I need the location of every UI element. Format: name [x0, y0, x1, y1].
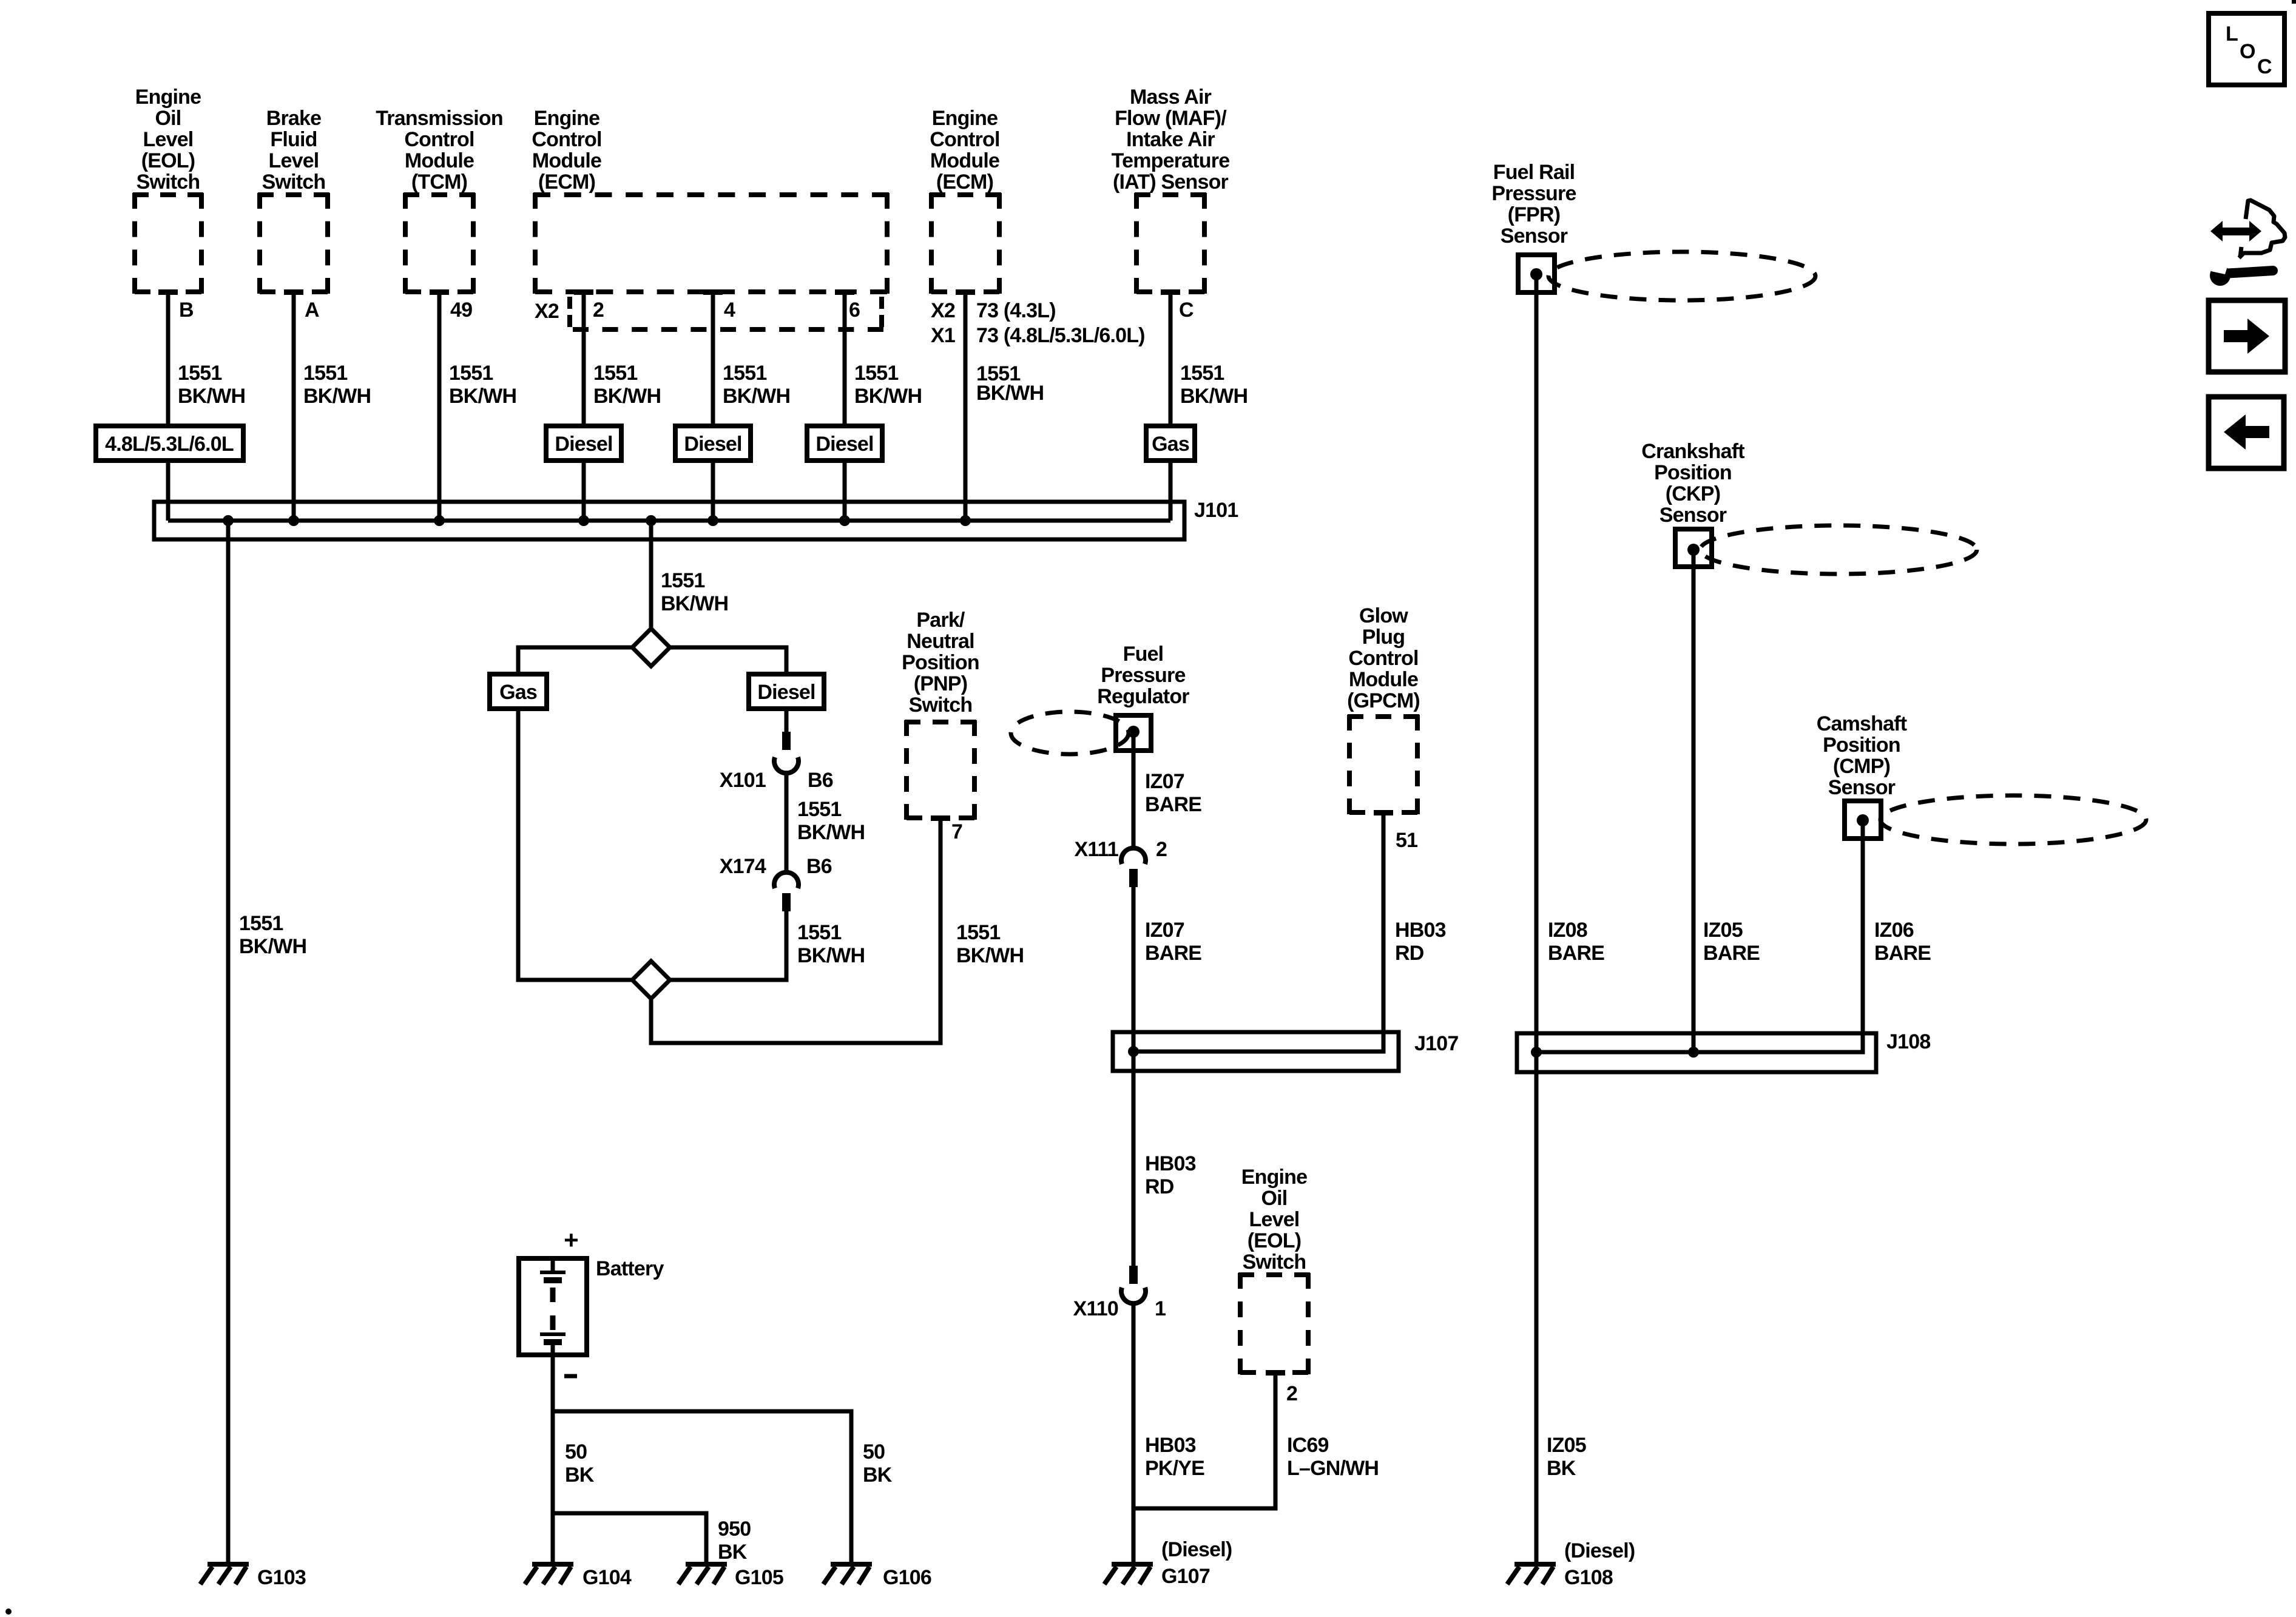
svg-text:1: 1: [1155, 1297, 1166, 1320]
svg-text:BARE: BARE: [1145, 793, 1201, 816]
svg-text:G107: G107: [1161, 1565, 1210, 1588]
svg-text:BK: BK: [1547, 1457, 1576, 1480]
Brake fluid level switch dashed box S2: [258, 193, 329, 294]
pin tab 6 of U1: [835, 289, 854, 295]
svg-text:(PNP): (PNP): [914, 672, 968, 695]
svg-text:BK: BK: [863, 1463, 893, 1487]
svg-text:IC69: IC69: [1287, 1434, 1329, 1457]
svg-text:BARE: BARE: [1703, 942, 1760, 965]
wire label 1551 BK/WH (pin 4): [723, 362, 790, 408]
wire IC69 L-GN/WH from S3 to G107 wire: [1133, 1372, 1275, 1508]
svg-text:Level: Level: [1249, 1208, 1300, 1231]
TCM dashed box: [403, 193, 475, 294]
SECTION: top row component labels: [135, 86, 1230, 194]
wire from bottom diamond to PNP switch pin 7: [651, 818, 940, 1043]
wire label 1551 BK/WH (G103 run): [239, 912, 306, 958]
service icon: stub: [2240, 247, 2241, 257]
wire 1551 BK/WH from MAF pin C to J101: [1169, 292, 1173, 521]
svg-text:Control: Control: [1348, 647, 1418, 670]
svg-text:Module: Module: [930, 149, 999, 172]
svg-text:Fuel Rail: Fuel Rail: [1493, 161, 1575, 184]
FPR sensor harness ellipse: [1548, 252, 1815, 300]
ground G108: [1507, 1564, 1556, 1584]
wire label IC69 L-GN/WH: [1287, 1434, 1379, 1480]
ECM wide dashed box U1: [533, 193, 889, 294]
junction dot G103 drop: [223, 515, 234, 526]
wire IZ06 BARE from CMP sensor to J108: [1536, 820, 1863, 1052]
connector X111 pin (male): [1129, 869, 1138, 887]
page corner mark: [2292, 0, 2296, 4]
wire label 50 BK (G106): [863, 1440, 893, 1487]
wire label 50 BK (G104): [565, 1440, 595, 1487]
svg-text:73 (4.8L/5.3L/6.0L): 73 (4.8L/5.3L/6.0L): [976, 324, 1145, 347]
svg-text:Control: Control: [930, 128, 999, 151]
wire label IZ05 BK (G108 run): [1547, 1434, 1586, 1480]
CKP sensor harness ellipse: [1700, 525, 1977, 574]
ECM connector X2 strip: left dashed tick: [567, 297, 572, 327]
svg-text:1551: 1551: [797, 798, 841, 821]
svg-text:1551: 1551: [593, 362, 637, 385]
pin tab 73 of U2: [956, 289, 975, 295]
fuel pressure regulator harness ellipse: [1011, 712, 1129, 754]
svg-text:HB03: HB03: [1145, 1152, 1196, 1175]
svg-text:IZ07: IZ07: [1145, 919, 1184, 942]
svg-text:G103: G103: [257, 1566, 306, 1589]
wire label 1551 BK/WH (pin 2): [593, 362, 661, 408]
pin tab B of S1: [158, 289, 178, 295]
wire label 1551 BK/WH (U2): [976, 362, 1044, 405]
svg-text:Neutral: Neutral: [907, 630, 974, 653]
svg-text:51: 51: [1396, 829, 1417, 852]
wire 1551 BK/WH from J101 down to G103: [226, 521, 231, 1563]
svg-text:IZ05: IZ05: [1703, 919, 1743, 942]
svg-text:Pressure: Pressure: [1101, 664, 1185, 687]
svg-text:B: B: [179, 299, 194, 322]
wire IZ07 BARE from regulator to X111: [1132, 733, 1136, 849]
wire 50 BK battery negative to G104: [551, 1355, 555, 1563]
svg-text:Temperature: Temperature: [1112, 149, 1230, 172]
svg-text:Camshaft: Camshaft: [1817, 712, 1907, 735]
label: Engine Control Module (ECM) U2: [930, 107, 999, 194]
svg-text:2: 2: [1286, 1382, 1297, 1405]
svg-text:X101: X101: [720, 769, 766, 792]
EOL switch dashed box S1: [133, 193, 203, 294]
svg-text:1551: 1551: [178, 362, 221, 385]
wire label 1551 BK/WH (S1): [178, 362, 245, 408]
svg-text:Sensor: Sensor: [1828, 776, 1896, 799]
svg-text:1551: 1551: [854, 362, 898, 385]
SECTION: right: [1491, 161, 2146, 1589]
engine usage box Gas (branch): [490, 674, 547, 709]
wire diesel branch right: [669, 647, 786, 674]
svg-text:1551: 1551: [449, 362, 493, 385]
svg-text:1551: 1551: [797, 921, 841, 944]
engine usage box Gas (MAF): [1146, 426, 1195, 461]
wire 1551 BK/WH from TCM pin 49 to J101: [437, 292, 442, 521]
ECM connector X2 strip: bottom dashed line: [573, 327, 883, 332]
label: Mass Air Flow (MAF)/Intake Air Temperature (IAT) Sensor: [1112, 86, 1230, 194]
svg-text:(GPCM): (GPCM): [1347, 689, 1420, 712]
wire label HB03 RD: [1395, 919, 1446, 965]
svg-text:6: 6: [849, 299, 860, 322]
engine usage box 4.8L/5.3L/6.0L: [96, 426, 243, 461]
svg-text:Oil: Oil: [1261, 1187, 1288, 1210]
wire IZ07 BARE from X111 through J107 to X110: [1132, 887, 1136, 1267]
svg-text:Brake: Brake: [266, 107, 322, 130]
svg-text:Position: Position: [1823, 734, 1900, 757]
junction dot 1551 drop: [646, 515, 657, 526]
CMP sensor terminal dot: [1857, 814, 1869, 826]
svg-text:BK/WH: BK/WH: [449, 385, 516, 408]
svg-text:Switch: Switch: [262, 170, 326, 194]
label: Glow Plug Control Module (GPCM): [1347, 604, 1420, 712]
wire 1551 BK/WH from U1 pin 2 to J101: [582, 292, 586, 521]
svg-text:BARE: BARE: [1548, 942, 1604, 965]
connector X110 pin (male): [1129, 1266, 1138, 1284]
service icon: double arrow: [2210, 221, 2261, 241]
wire label IZ08 BARE: [1548, 919, 1604, 965]
wire 1551 BK/WH from U1 pin 6 to J101: [843, 292, 847, 521]
svg-text:RD: RD: [1145, 1175, 1174, 1198]
wire label 1551 BK/WH (pin 6): [854, 362, 922, 408]
svg-text:Control: Control: [532, 128, 601, 151]
svg-text:Gas: Gas: [499, 681, 537, 704]
svg-text:X1: X1: [931, 324, 955, 347]
pin tab 2 of S3: [1266, 1370, 1285, 1376]
CKP sensor terminal dot: [1687, 544, 1700, 556]
label: Engine Oil Level (EOL) Switch S3: [1241, 1166, 1308, 1274]
label: Engine Control Module (ECM) U1: [532, 107, 601, 194]
svg-text:HB03: HB03: [1395, 919, 1446, 942]
label: Brake Fluid Level Switch S2: [262, 107, 326, 194]
svg-text:X110: X110: [1073, 1297, 1118, 1320]
svg-text:G108: G108: [1564, 1566, 1613, 1589]
svg-text:Control: Control: [404, 128, 474, 151]
svg-text:(CMP): (CMP): [1833, 755, 1890, 778]
wire label 1551 BK/WH (S2): [303, 362, 371, 408]
svg-text:Mass Air: Mass Air: [1130, 86, 1212, 109]
svg-text:IZ06: IZ06: [1874, 919, 1914, 942]
label: Engine Oil Level (EOL) Switch S1: [135, 86, 201, 194]
wire label 1551 BK/WH (above bottom diamond): [797, 921, 865, 967]
MAF/IAT sensor dashed box: [1135, 193, 1206, 294]
wire 1551 BK/WH from S1 pin B to J101: [166, 292, 171, 521]
junction dot J108 CKP: [1688, 1047, 1699, 1058]
svg-text:O: O: [2240, 40, 2255, 63]
junction dot TCM wire: [434, 515, 445, 526]
svg-text:(ECM): (ECM): [936, 170, 993, 194]
svg-text:G106: G106: [883, 1566, 931, 1589]
svg-text:Engine: Engine: [932, 107, 998, 130]
connector X101 socket (female): [774, 757, 799, 773]
ground G103: [200, 1564, 249, 1584]
svg-text:Engine: Engine: [135, 86, 201, 109]
svg-text:Diesel: Diesel: [815, 433, 873, 456]
junction dot J108 left: [1531, 1047, 1542, 1058]
left arrow: [2224, 414, 2269, 450]
svg-text:1551: 1551: [1180, 362, 1224, 385]
svg-text:(Diesel): (Diesel): [1564, 1539, 1635, 1562]
svg-text:HB03: HB03: [1145, 1434, 1196, 1457]
svg-text:X2: X2: [535, 300, 559, 323]
wire IZ05 BARE from CKP sensor to J108: [1692, 549, 1696, 1052]
ECM2 dashed box U2: [930, 193, 1001, 294]
CKP sensor box: [1675, 529, 1712, 567]
service icon: engine outline: [2239, 200, 2285, 258]
svg-text:(IAT) Sensor: (IAT) Sensor: [1113, 170, 1229, 194]
svg-text:1551: 1551: [303, 362, 347, 385]
engine usage box Diesel (pin 6): [807, 426, 882, 461]
wire label IZ05 BARE: [1703, 919, 1760, 965]
svg-text:BK/WH: BK/WH: [1180, 385, 1248, 408]
label: Crankshaft Position (CKP) Sensor: [1641, 440, 1744, 527]
ground G107: [1104, 1564, 1153, 1584]
svg-text:7: 7: [951, 820, 962, 843]
wire 1551 BK/WH from U2 pin 73 to J101: [964, 292, 968, 521]
splice pack J107 outer box: [1113, 1032, 1399, 1071]
wire label 1551 BK/WH (between X101 X174): [797, 798, 865, 844]
svg-text:BK/WH: BK/WH: [593, 385, 661, 408]
engine usage box Diesel (branch): [749, 674, 824, 709]
svg-text:1551: 1551: [956, 921, 1000, 944]
svg-text:BK: BK: [718, 1541, 748, 1564]
wire 1551 BK/WH from U1 pin 4 to J101: [711, 292, 715, 521]
connector X101 pin (male): [782, 732, 791, 750]
splice pack J108 outer box: [1517, 1033, 1876, 1072]
svg-text:2: 2: [593, 299, 604, 322]
svg-text:C: C: [2257, 55, 2272, 78]
svg-text:BK/WH: BK/WH: [723, 385, 790, 408]
svg-text:L–GN/WH: L–GN/WH: [1287, 1457, 1379, 1480]
svg-text:BK/WH: BK/WH: [303, 385, 371, 408]
svg-text:2: 2: [1156, 838, 1167, 861]
wire label HB03 PK/YE: [1145, 1434, 1204, 1480]
pin tab 49 of TCM: [430, 289, 449, 295]
svg-text:+: +: [564, 1226, 578, 1254]
wire label 1551 BK/WH (drop): [661, 569, 728, 615]
label: Fuel Rail Pressure (FPR) Sensor: [1491, 161, 1576, 248]
SECTION: top row boxes: [133, 193, 1206, 347]
wire 50 BK branch to G106: [553, 1411, 851, 1563]
FPR sensor box: [1518, 255, 1555, 292]
svg-text:Switch: Switch: [1243, 1251, 1306, 1274]
wire label 950 BK (G105): [718, 1517, 751, 1564]
svg-text:Module: Module: [1349, 668, 1418, 691]
svg-text:Intake Air: Intake Air: [1126, 128, 1215, 151]
svg-text:Diesel: Diesel: [555, 433, 612, 456]
CMP sensor box: [1845, 801, 1881, 839]
connector X174 socket (female): [774, 873, 799, 888]
svg-text:Position: Position: [1654, 461, 1732, 484]
CMP sensor harness ellipse: [1880, 795, 2146, 844]
wire IZ08 BARE from FPR sensor to J108 and G108: [1535, 274, 1539, 1563]
svg-text:1551: 1551: [239, 912, 283, 935]
connector X111 socket (female): [1121, 848, 1146, 864]
svg-text:Fluid: Fluid: [270, 128, 317, 151]
svg-text:(CKP): (CKP): [1666, 482, 1720, 505]
junction dot pin6 wire: [839, 515, 850, 526]
svg-text:BK/WH: BK/WH: [178, 385, 245, 408]
battery cell symbol: [540, 1258, 566, 1355]
svg-text:PK/YE: PK/YE: [1145, 1457, 1204, 1480]
svg-text:Engine: Engine: [1241, 1166, 1308, 1189]
svg-text:Switch: Switch: [137, 170, 200, 194]
wire HB03 RD from GPCM to J107: [1133, 812, 1383, 1052]
engine usage box Diesel (pin 2): [546, 426, 621, 461]
wire 1551 BK/WH from S2 pin A to J101: [292, 292, 296, 521]
svg-text:G105: G105: [735, 1566, 783, 1589]
label: Transmission Control Module (TCM): [376, 107, 503, 194]
label: Fuel Pressure Regulator: [1097, 643, 1189, 708]
svg-text:BK: BK: [565, 1463, 595, 1487]
svg-text:BARE: BARE: [1874, 942, 1931, 965]
svg-text:Module: Module: [532, 149, 601, 172]
svg-text:IZ08: IZ08: [1548, 919, 1587, 942]
svg-text:Fuel: Fuel: [1123, 643, 1164, 666]
svg-text:Pressure: Pressure: [1491, 182, 1576, 205]
svg-text:B6: B6: [806, 855, 832, 878]
LOC letters: [2226, 22, 2272, 78]
svg-text:Switch: Switch: [909, 694, 973, 717]
wire label 1551 BK/WH (TCM): [449, 362, 516, 408]
right arrow: [2224, 319, 2269, 354]
pin tab 4 of U1: [703, 289, 723, 295]
svg-text:BARE: BARE: [1145, 942, 1201, 965]
svg-text:BK/WH: BK/WH: [797, 821, 865, 844]
wire gas branch down: [518, 709, 632, 980]
svg-text:4.8L/5.3L/6.0L: 4.8L/5.3L/6.0L: [105, 433, 234, 456]
svg-text:Gas: Gas: [1152, 433, 1189, 456]
wire label 1551 BK/WH (PNP run): [956, 921, 1024, 967]
wire label IZ06 BARE: [1874, 919, 1931, 965]
svg-text:50: 50: [863, 1440, 885, 1463]
svg-text:Battery: Battery: [596, 1257, 664, 1280]
svg-text:Position: Position: [902, 651, 979, 674]
svg-text:50: 50: [565, 1440, 587, 1463]
svg-text:Glow: Glow: [1359, 604, 1408, 627]
svg-text:(EOL): (EOL): [141, 149, 195, 172]
wire 1551 BK/WH from J101 to splice diamond: [649, 521, 653, 629]
wire diesel branch to X101: [785, 709, 789, 734]
pin tab C of MAF sensor: [1161, 289, 1180, 295]
service icon: wrench: [2210, 262, 2273, 286]
svg-text:BK/WH: BK/WH: [797, 944, 865, 967]
svg-text:BK/WH: BK/WH: [956, 944, 1024, 967]
svg-text:(FPR): (FPR): [1508, 203, 1561, 226]
battery BT1 box: [519, 1258, 587, 1355]
svg-text:B6: B6: [808, 769, 833, 792]
svg-text:Oil: Oil: [155, 107, 181, 130]
wire label 1551 BK/WH (MAF): [1180, 362, 1248, 408]
pin tab 7 of PNP switch: [931, 815, 950, 821]
svg-text:BK/WH: BK/WH: [976, 382, 1044, 405]
svg-text:1551: 1551: [723, 362, 766, 385]
page bottom-left mark: [5, 1609, 12, 1615]
splice diamond bottom: [632, 961, 670, 999]
svg-text:(ECM): (ECM): [538, 170, 595, 194]
svg-text:Park/: Park/: [916, 609, 965, 632]
svg-text:BK/WH: BK/WH: [239, 935, 306, 958]
junction dot U2 wire: [960, 515, 971, 526]
pin tab A of S2: [284, 289, 303, 295]
svg-text:J108: J108: [1886, 1030, 1930, 1053]
ground G104: [525, 1564, 573, 1584]
splice diamond top: [632, 629, 670, 666]
wire 1551 BK/WH X101 to X174: [785, 774, 789, 873]
svg-text:Flow (MAF)/: Flow (MAF)/: [1115, 107, 1227, 130]
engine usage box Diesel (pin 4): [675, 426, 751, 461]
pin tab 51 of GPCM: [1374, 810, 1393, 815]
junction dot pin2 wire: [578, 515, 589, 526]
SECTION: battery: [519, 1226, 931, 1589]
svg-text:Diesel: Diesel: [757, 681, 815, 704]
wire label HB03 RD (below J107): [1145, 1152, 1196, 1198]
svg-text:BK/WH: BK/WH: [854, 385, 922, 408]
svg-text:(TCM): (TCM): [411, 170, 467, 194]
svg-text:Module: Module: [405, 149, 474, 172]
svg-text:RD: RD: [1395, 942, 1424, 965]
svg-text:4: 4: [724, 299, 735, 322]
svg-text:X174: X174: [720, 855, 766, 878]
svg-text:1551: 1551: [661, 569, 704, 592]
svg-text:IZ05: IZ05: [1547, 1434, 1586, 1457]
svg-text:Engine: Engine: [534, 107, 600, 130]
svg-text:Regulator: Regulator: [1097, 685, 1189, 708]
wire HB03 PK/YE from X110 to G107: [1132, 1303, 1136, 1563]
svg-text:(Diesel): (Diesel): [1161, 1538, 1232, 1561]
splice pack J101 outer box: [154, 502, 1184, 539]
wire label IZ07 BARE (lower): [1145, 919, 1201, 965]
label: Camshaft Position (CMP) Sensor: [1817, 712, 1907, 799]
LOC legend box: [2209, 13, 2284, 85]
svg-text:Level: Level: [269, 149, 319, 172]
GPCM dashed box: [1348, 715, 1419, 814]
ground G105: [678, 1564, 727, 1584]
svg-text:J107: J107: [1414, 1032, 1458, 1055]
fuel pressure regulator terminal dot: [1127, 726, 1140, 738]
svg-text:J101: J101: [1194, 499, 1238, 522]
svg-text:X2: X2: [931, 299, 955, 322]
svg-text:Level: Level: [143, 128, 194, 151]
FPR sensor terminal dot: [1530, 268, 1542, 280]
splice pack J101 bus wire: [168, 519, 1170, 523]
svg-text:BK/WH: BK/WH: [661, 592, 728, 615]
svg-text:73 (4.3L): 73 (4.3L): [976, 299, 1056, 322]
SECTION: wires: [96, 292, 1248, 1589]
svg-text:Diesel: Diesel: [684, 433, 741, 456]
svg-text:C: C: [1179, 299, 1194, 322]
EOL switch dashed box S3: [1238, 1273, 1310, 1374]
ground G106: [823, 1564, 872, 1584]
svg-text:(EOL): (EOL): [1248, 1229, 1302, 1252]
svg-text:A: A: [305, 299, 319, 322]
wire diesel branch down to diamond: [670, 911, 786, 980]
svg-text:Sensor: Sensor: [1501, 224, 1568, 248]
label: Park/Neutral Position (PNP) Switch: [902, 609, 979, 717]
svg-text:Crankshaft: Crankshaft: [1641, 440, 1744, 463]
wire 950 BK branch to G105: [553, 1513, 706, 1563]
svg-text:Sensor: Sensor: [1660, 504, 1727, 527]
svg-text:Transmission: Transmission: [376, 107, 503, 130]
left arrow legend box: [2209, 397, 2284, 468]
fuel pressure regulator box: [1116, 715, 1151, 751]
SECTION: middle: [490, 521, 1458, 1588]
PNP switch dashed box: [905, 720, 976, 820]
junction dot pin4 wire: [707, 515, 718, 526]
connector X110 socket (female): [1121, 1288, 1146, 1303]
connector X174 pin (male): [782, 893, 791, 911]
ECM connector X2 strip: right dashed tick: [879, 297, 884, 327]
